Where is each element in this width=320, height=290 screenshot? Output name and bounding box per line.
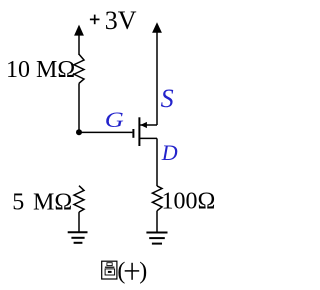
wire drain down [156, 138, 158, 186]
ground right [146, 233, 167, 244]
resistor R3 100 ohm [152, 186, 162, 211]
wire right to ground [156, 211, 158, 233]
resistor R1 10M [74, 54, 84, 83]
svg-text:100Ω: 100Ω [162, 189, 216, 215]
wire left vertical [78, 83, 80, 132]
svg-text:(: ( [117, 258, 125, 284]
wire node to gate [79, 131, 132, 133]
svg-text:D: D [161, 140, 178, 165]
node junction dot [76, 129, 82, 135]
svg-text:S: S [161, 84, 174, 113]
svg-text:3V: 3V [105, 6, 137, 35]
transistor M1 channel bar [138, 117, 140, 146]
power arrow right (VDD) [152, 22, 162, 33]
svg-text:): ) [139, 258, 147, 284]
wire left to ground [78, 212, 80, 232]
transistor M1 gate bar [132, 129, 134, 138]
svg-text:10 MΩ: 10 MΩ [6, 57, 75, 83]
power net label +3V [90, 15, 100, 25]
svg-text:5: 5 [12, 190, 24, 216]
transistor M1 source lead with arrow [140, 122, 157, 128]
wire source up [156, 32, 158, 126]
transistor M1 drain lead [139, 137, 157, 139]
svg-text:G: G [105, 107, 124, 132]
resistor R2 5M [74, 186, 84, 212]
caption glyph 圖 [102, 261, 117, 279]
svg-text:MΩ: MΩ [33, 190, 72, 216]
ground left [68, 232, 88, 243]
power arrow left (VDD) [74, 25, 84, 55]
caption glyph 十 [125, 263, 140, 280]
